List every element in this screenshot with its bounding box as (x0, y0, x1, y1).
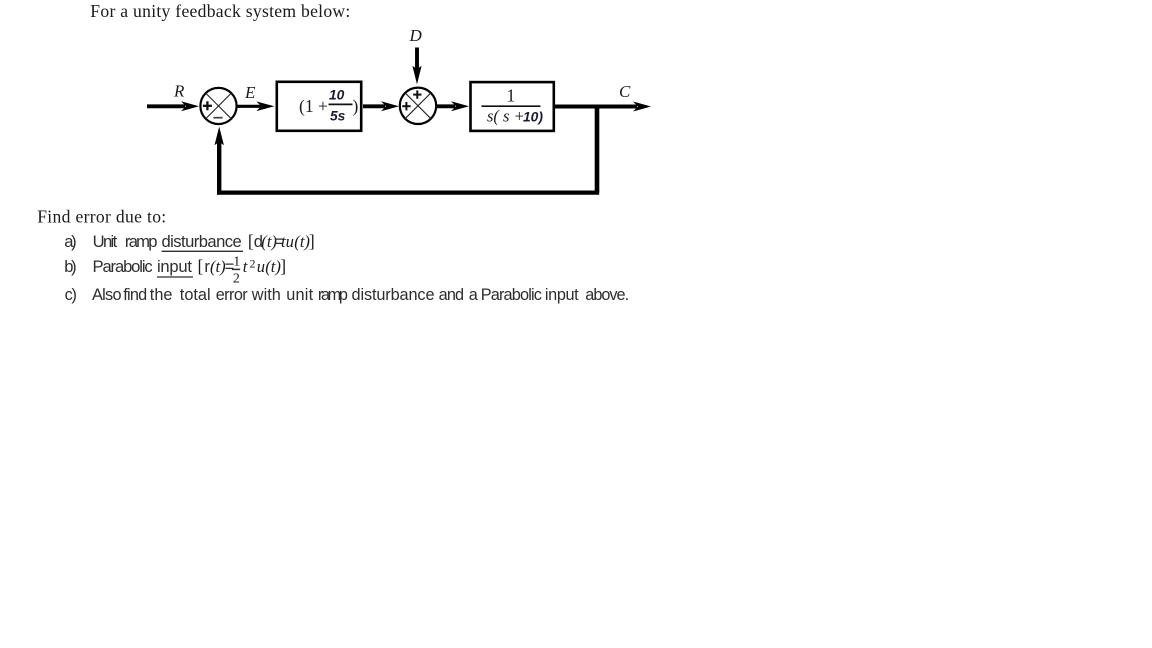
svg-text:R: R (173, 82, 185, 101)
svg-text:tu: tu (281, 232, 294, 251)
item a (64, 231, 314, 251)
svg-text:and: and (439, 286, 465, 304)
wire: G2 output to C (555, 102, 651, 112)
S2 plus sign (left) (402, 102, 410, 110)
svg-text:]: ] (309, 231, 315, 251)
svg-text:(t): (t) (265, 257, 281, 276)
S2 plus sign (top) (413, 90, 421, 98)
svg-text:ramp: ramp (125, 232, 158, 251)
svg-text:u: u (257, 257, 265, 276)
svg-text:input: input (545, 286, 579, 304)
svg-text:s( s +: s( s + (487, 107, 525, 126)
svg-text:disturbance: disturbance (352, 286, 435, 304)
svg-text:Find error due to:: Find error due to: (37, 207, 166, 227)
svg-text:[: [ (198, 256, 204, 276)
wire: feedback bottom segment (217, 191, 599, 195)
svg-text:above.: above. (585, 286, 629, 304)
block G2: 1/(s(s+10)) (471, 82, 554, 131)
S1 minus sign (213, 117, 222, 119)
item c (65, 286, 630, 304)
svg-text:For a unity feedback system be: For a unity feedback system below: (90, 1, 350, 21)
svg-text:Parabolic: Parabolic (93, 257, 153, 276)
svg-text:5s: 5s (330, 109, 346, 124)
svg-text:(1 +: (1 + (299, 96, 328, 116)
svg-text:2: 2 (250, 257, 256, 270)
svg-text:error: error (216, 286, 249, 304)
svg-text:total: total (180, 286, 211, 304)
svg-text:C: C (619, 82, 631, 101)
svg-text:t: t (243, 257, 248, 276)
svg-text:Also: Also (92, 286, 122, 304)
wire: feedback up segment into S1 (215, 127, 224, 195)
svg-text:a): a) (64, 232, 76, 251)
svg-text:10: 10 (329, 88, 345, 103)
svg-text:with: with (251, 286, 281, 304)
S1 plus sign (203, 101, 212, 110)
svg-text:the: the (150, 286, 173, 304)
svg-text:unit: unit (286, 286, 313, 304)
item b (64, 255, 286, 287)
block G1: (1 + 10/5s) (277, 82, 361, 131)
wire: feedback tap down segment (595, 107, 600, 193)
svg-text:1: 1 (507, 86, 516, 106)
wire: disturbance D into S2 (412, 48, 421, 85)
wire: G1 to summer S2 (363, 101, 399, 111)
wire: input R into summer S1 (147, 101, 199, 111)
G2 value label (482, 86, 544, 126)
svg-text:c): c) (65, 286, 77, 304)
svg-text:E: E (244, 83, 256, 102)
svg-text:1: 1 (233, 255, 240, 270)
summing junction S2 (400, 88, 436, 124)
svg-text:ramp: ramp (318, 286, 348, 304)
svg-text:]: ] (280, 256, 286, 276)
svg-text:): ) (353, 96, 359, 116)
wire: S1 to block G1 (237, 102, 275, 112)
svg-text:find: find (123, 286, 147, 304)
wire: S2 to block G2 (437, 101, 469, 111)
svg-text:D: D (409, 26, 423, 45)
svg-text:10): 10) (523, 110, 543, 125)
svg-text:input: input (157, 257, 192, 276)
svg-text:Parabolic: Parabolic (481, 286, 542, 304)
svg-text:disturbance: disturbance (162, 232, 242, 251)
svg-text:2: 2 (233, 272, 240, 287)
summing junction S1 (200, 88, 236, 124)
svg-text:Unit: Unit (93, 232, 118, 251)
G1 value label (299, 88, 359, 124)
svg-text:b): b) (64, 257, 76, 276)
svg-text:a: a (469, 286, 479, 304)
